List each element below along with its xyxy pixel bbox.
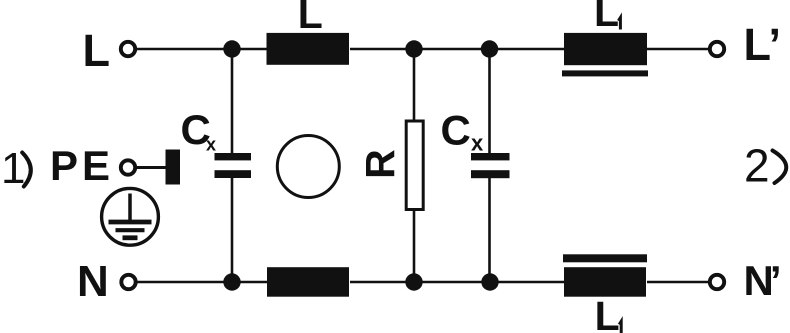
svg-text:N’: N’ [744,257,779,304]
wire N terminal to junction [137,281,267,284]
junction dot bottom-left [223,273,240,290]
inductor L1 bottom [564,267,646,297]
wire bottom middle [350,281,565,284]
svg-text:L: L [298,0,323,37]
svg-text:L: L [595,293,620,333]
svg-text:N: N [77,257,109,306]
resistor R [406,121,423,210]
junction dot top-right [481,40,498,57]
svg-text:L: L [83,25,111,76]
wire L1 to L' terminal [646,48,709,51]
core bar L1 top [562,70,648,76]
terminal PE [121,160,135,174]
wire L terminal to junction/inductor [137,48,267,51]
terminal L' [710,42,724,56]
core bar L1 bottom [563,254,647,262]
ground (protective earth symbol) [102,188,159,245]
capacitor Cx right plate top [471,153,510,160]
junction dot bottom-right [481,273,498,290]
junction dot bottom-middle [405,273,422,290]
wire middle vertical upper [413,49,416,121]
junction dot top-middle [405,40,422,57]
inductor L1 top [564,33,647,65]
wire PE stub [137,166,167,169]
svg-text:L: L [594,0,619,35]
inductor L [267,33,350,65]
wire left vertical lower [231,178,234,282]
wire inductor L to L1 [350,48,565,51]
svg-text:L’: L’ [744,19,782,70]
terminal L [121,42,135,56]
capacitor Cx left plate top [215,153,252,160]
svg-text:x: x [206,134,216,154]
motor/load circle symbol [277,136,339,198]
wire right vertical upper [488,49,491,153]
svg-text:x: x [471,131,484,156]
wire left vertical upper [231,49,234,153]
wire right vertical lower [488,178,491,282]
junction dot top-left [223,40,240,57]
wire middle vertical lower [413,209,416,282]
svg-text:2: 2 [744,140,770,192]
terminal N [121,275,135,289]
inductor bottom-left [267,267,349,297]
PE stub bar [166,150,181,185]
svg-text:PE: PE [50,142,114,189]
wire L1 bottom to N' terminal [647,281,709,284]
svg-text:C: C [441,107,471,154]
capacitor Cx left plate bottom [215,170,252,178]
svg-text:R: R [357,149,403,179]
capacitor Cx right plate bottom [471,170,510,178]
terminal N' [710,275,724,289]
